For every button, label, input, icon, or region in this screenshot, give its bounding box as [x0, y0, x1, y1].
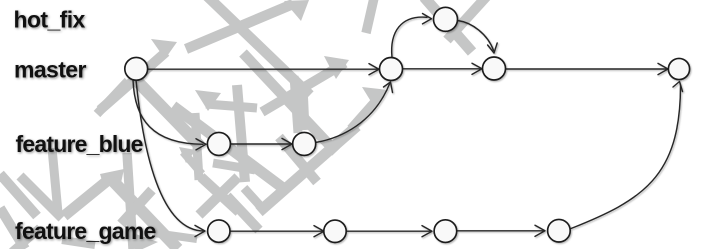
- wire G1->G2: [230, 230, 323, 232]
- branch curve master->feature_game: [136, 80, 204, 231]
- arrow into C3 top: [488, 43, 498, 53]
- arrow into C4: [658, 63, 668, 74]
- arrow into C2: [369, 64, 379, 75]
- merge curve feature_blue->master: [316, 84, 390, 143]
- node master C2: [380, 58, 403, 81]
- node master C3: [483, 57, 506, 80]
- merge curve hotfix->master: [458, 21, 494, 51]
- svg-text:feature_game: feature_game: [15, 218, 156, 244]
- label master: [14, 57, 86, 83]
- label feature_blue: [16, 131, 143, 157]
- label feature_game: [15, 218, 156, 244]
- node B1: [207, 132, 230, 155]
- wire G3->G4: [457, 230, 544, 232]
- branch curve master->feature_blue: [133, 80, 203, 144]
- wire B1->B2: [230, 143, 290, 145]
- node hotfix H1: [434, 7, 458, 31]
- node G1: [208, 220, 230, 242]
- wire master C3->C4: [506, 68, 667, 70]
- arrow into B1: [196, 139, 206, 150]
- arrow into C3: [472, 63, 482, 74]
- svg-text:feature_blue: feature_blue: [16, 131, 143, 157]
- merge curve feature_game->master end: [571, 85, 681, 229]
- node G4: [548, 219, 571, 242]
- arrow into C4 bottom: [673, 82, 683, 92]
- node B2: [293, 132, 316, 155]
- arrow into G3: [422, 226, 432, 237]
- arrow into hotfix node: [423, 14, 432, 24]
- node G2: [324, 220, 346, 242]
- branch curve master->hotfix: [392, 17, 427, 57]
- watermark: [0, 0, 491, 249]
- wire master C2->C3: [403, 68, 481, 70]
- node master C1: [125, 57, 148, 80]
- wire master C1->C2: [148, 68, 378, 70]
- arrow into G4: [535, 225, 545, 236]
- arrow into G2: [314, 226, 324, 237]
- svg-text:master: master: [14, 57, 86, 83]
- arrow into G1: [195, 225, 205, 236]
- label hot_fix: [14, 7, 86, 33]
- arrow into C2 bottom: [384, 82, 393, 93]
- wire G2->G3: [346, 230, 431, 232]
- svg-text:hot_fix: hot_fix: [14, 7, 86, 33]
- node G3: [434, 220, 457, 243]
- arrow into B2: [282, 138, 292, 149]
- node master C4: [668, 58, 689, 79]
